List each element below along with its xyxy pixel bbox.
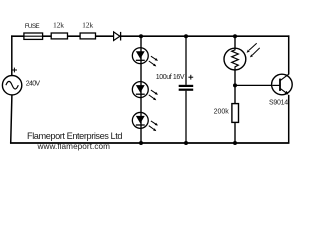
wire R4 to bottom rail: [234, 122, 236, 143]
diode D1: [114, 32, 121, 41]
svg-text:www.flameport.com: www.flameport.com: [37, 142, 111, 151]
wire LDR column upper: [234, 36, 236, 48]
fuse FUSE: [24, 33, 43, 39]
node top LED: [139, 34, 143, 38]
node top LDR: [233, 34, 237, 38]
wire emitter vertical: [288, 95, 290, 144]
svg-text:240V: 240V: [26, 81, 41, 88]
node bottom LED: [139, 141, 143, 145]
LED D2: [132, 48, 158, 67]
wire bottom rail: [10, 142, 289, 144]
wire left column upper: [11, 35, 13, 75]
svg-text:12k: 12k: [82, 21, 93, 30]
source V1 240V AC: [2, 68, 21, 95]
capacitor C1 plates: [179, 85, 194, 87]
svg-text:S9014: S9014: [269, 100, 288, 107]
wire LED column: [140, 36, 142, 143]
wire LDR column lower: [234, 70, 236, 104]
svg-text:Flameport Enterprises Ltd: Flameport Enterprises Ltd: [27, 131, 123, 141]
node top cap: [184, 34, 188, 38]
LED D3: [132, 82, 158, 101]
wire left column lower: [11, 95, 12, 143]
capacitor C1 plus: [188, 76, 193, 78]
transistor Q1: [272, 74, 293, 95]
wire base: [235, 84, 273, 86]
svg-text:200k: 200k: [214, 108, 230, 115]
svg-text:FUSE: FUSE: [25, 23, 40, 30]
resistor R1: [51, 33, 67, 39]
svg-text:100uf 16V: 100uf 16V: [156, 74, 185, 81]
capacitor C1 wire lower: [185, 91, 187, 143]
node bottom cap: [184, 141, 188, 145]
capacitor C1 wire upper: [185, 36, 187, 85]
svg-text:12k: 12k: [53, 21, 64, 30]
resistor R2: [80, 33, 95, 39]
wire collector vertical: [288, 35, 290, 74]
wire top rail: [11, 35, 289, 37]
LED D4: [132, 112, 158, 131]
resistor R4 200k: [232, 104, 239, 123]
node bottom LDR: [233, 141, 237, 145]
LDR R3: [224, 43, 260, 70]
node base junction: [233, 83, 237, 87]
